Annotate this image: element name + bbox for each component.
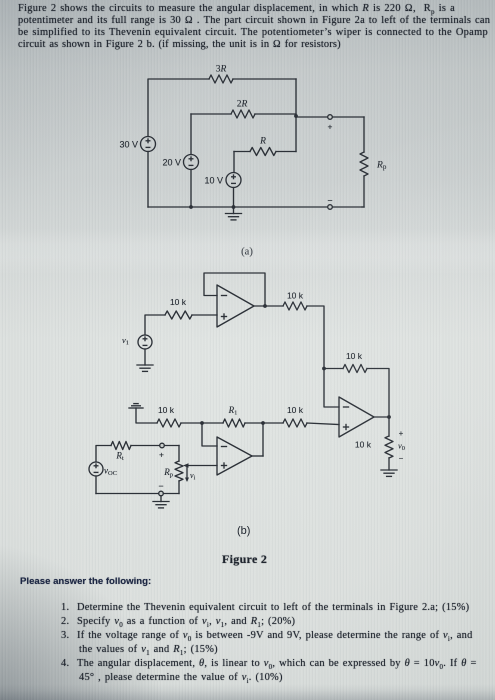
svg-text:−: − bbox=[327, 196, 332, 206]
svg-text:10 k: 10 k bbox=[158, 405, 175, 415]
svg-text:2R: 2R bbox=[237, 100, 248, 110]
svg-text:Rp: Rp bbox=[376, 161, 387, 172]
svg-text:−: − bbox=[158, 481, 163, 491]
svg-text:10 k: 10 k bbox=[287, 405, 304, 415]
svg-text:vi: vi bbox=[190, 471, 196, 482]
svg-text:10 V: 10 V bbox=[204, 176, 223, 186]
svg-text:10 k: 10 k bbox=[170, 297, 187, 307]
svg-text:+: + bbox=[159, 450, 164, 460]
svg-text:+: + bbox=[328, 122, 333, 132]
svg-text:(a): (a) bbox=[241, 247, 253, 258]
svg-text:3R: 3R bbox=[216, 65, 227, 75]
svg-text:v0: v0 bbox=[398, 441, 405, 453]
svg-text:Rt: Rt bbox=[115, 451, 124, 463]
svg-text:+: + bbox=[399, 429, 404, 438]
svg-text:v1: v1 bbox=[122, 335, 129, 347]
svg-text:−: − bbox=[399, 454, 404, 463]
svg-text:10 k: 10 k bbox=[355, 440, 372, 450]
svg-text:Rp: Rp bbox=[163, 467, 173, 479]
svg-text:R1: R1 bbox=[228, 405, 238, 417]
svg-text:R: R bbox=[259, 137, 266, 147]
svg-text:10 k: 10 k bbox=[287, 291, 304, 301]
svg-text:20 V: 20 V bbox=[162, 158, 181, 168]
svg-text:30 V: 30 V bbox=[119, 140, 138, 150]
svg-text:vOC: vOC bbox=[104, 466, 117, 478]
svg-text:10 k: 10 k bbox=[346, 351, 363, 361]
